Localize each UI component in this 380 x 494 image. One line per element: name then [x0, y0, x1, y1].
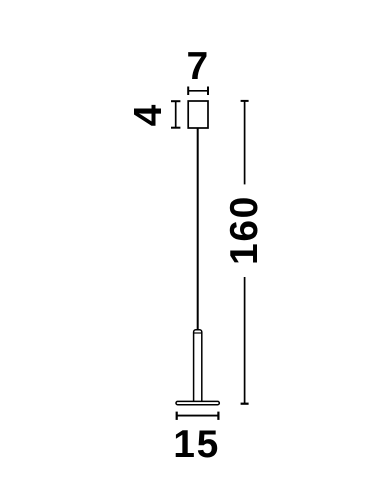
overall height dimension line 160	[241, 101, 249, 404]
svg-text:7: 7	[187, 45, 209, 88]
height dimension line 4	[171, 101, 180, 128]
dimension value 160 (overall height, rotated)	[223, 195, 266, 265]
svg-text:160: 160	[223, 195, 266, 265]
svg-text:15: 15	[173, 423, 220, 466]
lamp tube body	[194, 330, 202, 404]
dimension value 4 (canopy height, rotated)	[127, 104, 170, 126]
svg-text:4: 4	[127, 104, 170, 126]
width dimension line 7	[188, 87, 208, 96]
dimension value 7 (canopy width)	[187, 45, 209, 88]
ceiling canopy rectangle	[188, 101, 208, 128]
dimension value 15 (base width)	[173, 423, 220, 466]
base plate	[176, 401, 219, 404]
suspension cable wire	[197, 128, 199, 334]
base width dimension line 15	[177, 412, 219, 420]
